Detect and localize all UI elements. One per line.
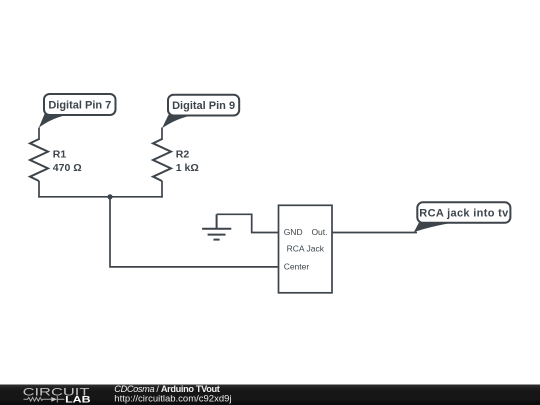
ground [202,214,231,239]
svg-text:R2: R2 [176,149,190,161]
wire: R2 bottom lead [161,181,163,198]
callout "RCA jack into tv" [417,202,510,223]
svg-text:Digital Pin 9: Digital Pin 9 [172,100,235,112]
resistor R2 [153,139,171,181]
resistor R1 [30,139,48,181]
wire: Digital Pin 9 anchor to R2 top [161,128,163,141]
RCA jack box [279,205,333,292]
callout "Digital Pin 9" [168,95,239,116]
svg-text:470 Ω: 470 Ω [53,162,82,174]
wire: ground to GND pin [217,214,279,232]
svg-text:RCA Jack: RCA Jack [287,244,325,254]
svg-text:Center: Center [284,262,310,272]
callout tail (Digital Pin 7) [39,114,71,128]
junction node [107,194,112,199]
svg-text:GND: GND [284,227,303,237]
wire: Digital Pin 7 anchor to R1 top [38,128,40,141]
svg-text:R1: R1 [53,149,67,161]
svg-text:RCA jack into tv: RCA jack into tv [419,208,509,220]
svg-text:LAB: LAB [65,395,91,405]
callout "Digital Pin 7" [44,94,116,115]
footer bar [0,385,540,405]
svg-text:1 kΩ: 1 kΩ [176,162,199,174]
callout tail (RCA jack into tv) [414,223,452,232]
svg-text:Out.: Out. [311,227,327,237]
CircuitLab logo: resistor + diode squiggle [24,396,65,403]
wire: Out pin to callout anchor [332,232,417,234]
wire: junction to Center pin [110,197,279,267]
callout tail (Digital Pin 9) [162,115,195,129]
wire: R1 bottom lead [38,181,40,198]
svg-text:http://circuitlab.com/c92xd9j: http://circuitlab.com/c92xd9j [114,393,231,404]
svg-text:Digital Pin 7: Digital Pin 7 [48,100,111,112]
wire: bottom bus R1 to R2 [38,196,163,198]
